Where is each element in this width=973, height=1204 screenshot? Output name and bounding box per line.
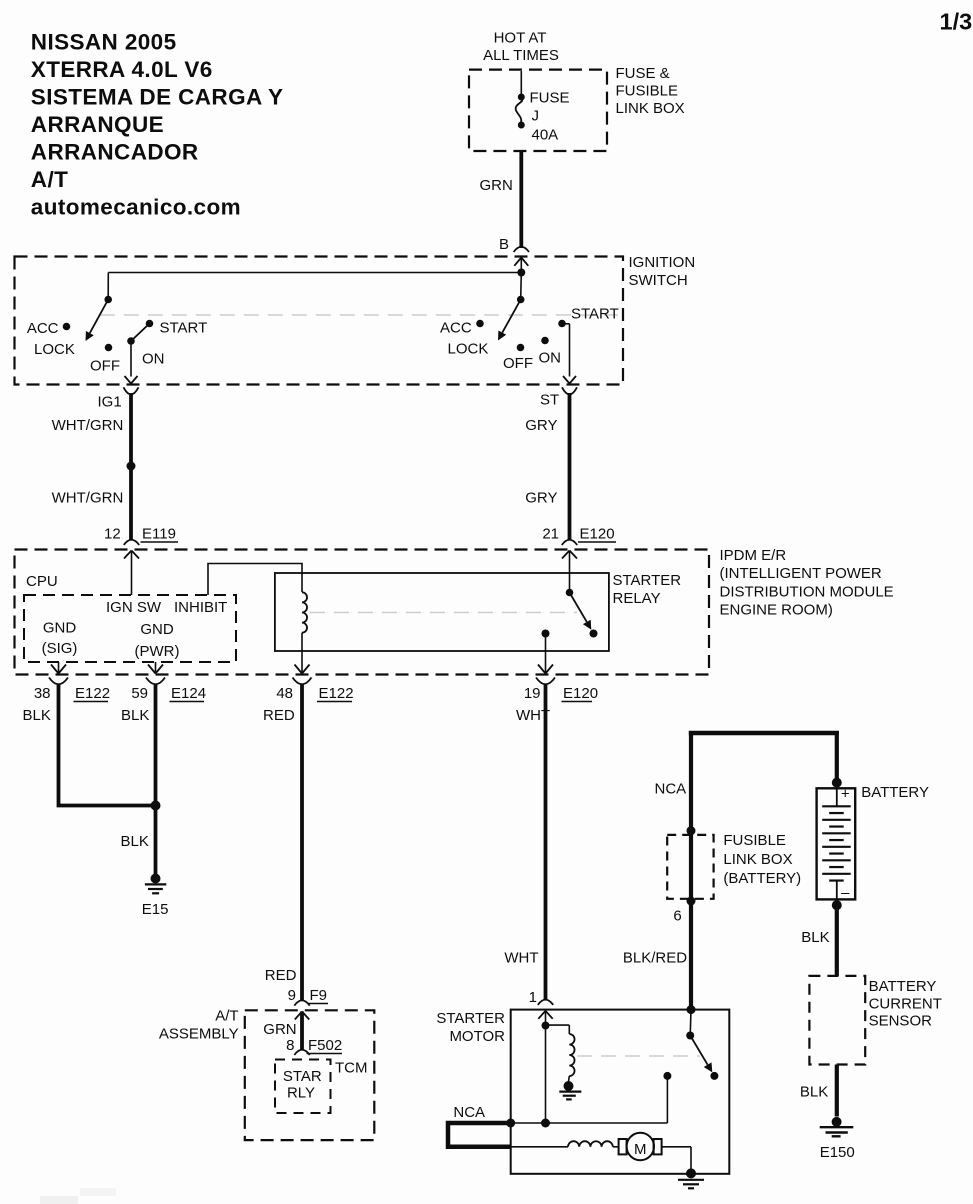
- svg-text:ALL TIMES: ALL TIMES: [483, 47, 559, 64]
- svg-text:CPU: CPU: [26, 573, 58, 590]
- svg-text:automecanico.com: automecanico.com: [31, 195, 241, 220]
- svg-text:NCA: NCA: [453, 1104, 485, 1121]
- svg-text:E150: E150: [820, 1144, 855, 1161]
- svg-text:(PWR): (PWR): [135, 643, 180, 660]
- svg-text:STARTER: STARTER: [436, 1010, 505, 1027]
- svg-text:BLK/RED: BLK/RED: [623, 950, 687, 967]
- svg-text:SISTEMA DE CARGA Y: SISTEMA DE CARGA Y: [31, 85, 284, 110]
- svg-text:ASSEMBLY: ASSEMBLY: [159, 1026, 239, 1043]
- svg-text:M: M: [634, 1141, 647, 1158]
- svg-text:ACC: ACC: [440, 320, 472, 337]
- svg-text:12: 12: [104, 526, 121, 543]
- svg-text:BATTERY: BATTERY: [869, 978, 937, 995]
- svg-text:IGN SW: IGN SW: [106, 599, 162, 616]
- svg-text:BLK: BLK: [121, 833, 149, 850]
- svg-text:BLK: BLK: [801, 929, 829, 946]
- svg-text:RELAY: RELAY: [613, 590, 661, 607]
- svg-text:WHT: WHT: [516, 707, 550, 724]
- svg-text:38: 38: [34, 685, 51, 702]
- svg-text:TCM: TCM: [335, 1060, 368, 1077]
- svg-text:RED: RED: [265, 967, 297, 984]
- svg-text:INHIBIT: INHIBIT: [174, 599, 227, 616]
- svg-text:BATTERY: BATTERY: [861, 784, 929, 801]
- svg-text:LOCK: LOCK: [34, 341, 75, 358]
- svg-text:NISSAN 2005: NISSAN 2005: [31, 30, 177, 55]
- svg-text:GRY: GRY: [525, 417, 557, 434]
- svg-text:WHT/GRN: WHT/GRN: [52, 490, 124, 507]
- svg-text:ARRANQUE: ARRANQUE: [31, 112, 164, 137]
- svg-text:ARRANCADOR: ARRANCADOR: [31, 140, 199, 165]
- svg-text:ENGINE ROOM): ENGINE ROOM): [720, 601, 833, 618]
- svg-text:BLK: BLK: [800, 1084, 828, 1101]
- svg-text:6: 6: [673, 908, 681, 925]
- svg-text:ST: ST: [540, 392, 559, 409]
- svg-text:GRY: GRY: [525, 490, 557, 507]
- svg-text:STARTER: STARTER: [613, 572, 682, 589]
- svg-text:FUSIBLE: FUSIBLE: [723, 832, 786, 849]
- svg-text:F9: F9: [310, 987, 328, 1004]
- svg-text:NCA: NCA: [655, 781, 687, 798]
- svg-text:MOTOR: MOTOR: [449, 1028, 505, 1045]
- svg-text:E124: E124: [171, 685, 206, 702]
- svg-text:STAR: STAR: [283, 1068, 322, 1085]
- svg-text:LINK BOX: LINK BOX: [723, 851, 792, 868]
- svg-text:21: 21: [542, 526, 559, 543]
- svg-text:+: +: [841, 786, 850, 803]
- svg-text:FUSIBLE: FUSIBLE: [616, 83, 679, 100]
- svg-text:IG1: IG1: [98, 394, 122, 411]
- svg-text:1/3: 1/3: [940, 9, 973, 35]
- svg-text:J: J: [532, 108, 540, 125]
- svg-text:WHT: WHT: [504, 950, 538, 967]
- svg-text:ACC: ACC: [27, 320, 59, 337]
- svg-text:A/T: A/T: [215, 1008, 238, 1025]
- svg-text:A/T: A/T: [31, 167, 68, 192]
- svg-text:OFF: OFF: [90, 358, 120, 375]
- svg-text:–: –: [841, 885, 850, 902]
- svg-text:(SIG): (SIG): [42, 640, 78, 657]
- svg-text:LOCK: LOCK: [448, 341, 489, 358]
- svg-text:19: 19: [524, 685, 541, 702]
- svg-text:E120: E120: [580, 526, 615, 543]
- svg-text:IPDM E/R: IPDM E/R: [720, 547, 787, 564]
- svg-text:START: START: [571, 306, 619, 323]
- svg-text:FUSE &: FUSE &: [616, 65, 670, 82]
- svg-text:1: 1: [529, 989, 537, 1006]
- svg-text:E15: E15: [142, 901, 169, 918]
- svg-text:59: 59: [131, 685, 148, 702]
- svg-text:CURRENT: CURRENT: [869, 996, 942, 1013]
- svg-text:ON: ON: [142, 351, 165, 368]
- svg-text:START: START: [160, 320, 208, 337]
- svg-text:LINK BOX: LINK BOX: [616, 100, 685, 117]
- svg-text:E122: E122: [319, 685, 354, 702]
- svg-text:IGNITION: IGNITION: [629, 254, 696, 271]
- svg-text:F502: F502: [308, 1037, 342, 1054]
- svg-text:(INTELLIGENT POWER: (INTELLIGENT POWER: [720, 565, 882, 582]
- svg-text:BLK: BLK: [121, 707, 149, 724]
- svg-text:E119: E119: [142, 526, 176, 543]
- svg-text:HOT AT: HOT AT: [494, 30, 547, 47]
- svg-text:E120: E120: [563, 685, 598, 702]
- svg-text:8: 8: [286, 1037, 294, 1054]
- svg-text:SENSOR: SENSOR: [869, 1013, 933, 1030]
- svg-text:WHT/GRN: WHT/GRN: [52, 417, 124, 434]
- svg-text:GRN: GRN: [480, 177, 513, 194]
- svg-text:DISTRIBUTION MODULE: DISTRIBUTION MODULE: [720, 583, 894, 600]
- svg-text:(BATTERY): (BATTERY): [723, 870, 801, 887]
- svg-text:GND: GND: [140, 621, 174, 638]
- svg-text:ON: ON: [539, 350, 562, 367]
- svg-text:XTERRA 4.0L V6: XTERRA 4.0L V6: [31, 57, 213, 82]
- svg-text:OFF: OFF: [503, 355, 533, 372]
- svg-text:FUSE: FUSE: [530, 90, 570, 107]
- svg-text:9: 9: [288, 987, 296, 1004]
- svg-text:GRN: GRN: [263, 1021, 296, 1038]
- svg-text:E122: E122: [75, 685, 110, 702]
- svg-text:48: 48: [276, 685, 293, 702]
- svg-text:RLY: RLY: [287, 1085, 315, 1102]
- svg-text:SWITCH: SWITCH: [629, 272, 688, 289]
- svg-text:GND: GND: [43, 620, 77, 637]
- svg-text:RED: RED: [263, 707, 295, 724]
- svg-text:40A: 40A: [532, 127, 559, 144]
- svg-text:BLK: BLK: [23, 707, 51, 724]
- svg-text:B: B: [499, 236, 509, 253]
